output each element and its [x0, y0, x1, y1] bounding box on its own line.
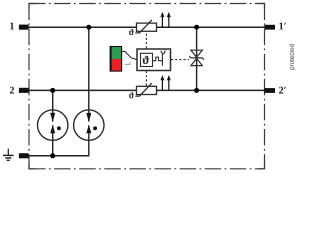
- node junction line1/GDT F2: [86, 25, 91, 30]
- node junction line2/TVS: [194, 88, 199, 93]
- varistor RV2 (thermally monitored, line 2): [135, 83, 156, 96]
- label terminal 2': [279, 87, 286, 94]
- GDT F2 spark gap (gas discharge tube): [74, 110, 104, 140]
- wire GDT F2 branch (line 1 to ground, crossing line 2): [88, 27, 90, 156]
- dashed link monitor to RV2: [145, 71, 147, 86]
- varistor RV1 (thermally monitored, line 1): [135, 20, 156, 33]
- terminal 1': [265, 25, 276, 30]
- node junction ground/GDT F1: [50, 153, 55, 158]
- wire GDT F1 branch (line 2 to ground): [52, 90, 54, 155]
- enclosure dash-dot border top: [29, 3, 265, 5]
- wire line 2: [29, 89, 265, 91]
- wire line 1: [29, 26, 265, 28]
- label protected (rotated): [289, 44, 295, 69]
- thermal monitor unit U1: [137, 49, 171, 71]
- terminal 2: [19, 88, 29, 93]
- label theta RV1: [129, 29, 134, 35]
- label terminal 1: [10, 23, 14, 30]
- enclosure dash-dot border bottom: [29, 168, 265, 170]
- ground symbol: [3, 149, 14, 161]
- terminal 2': [265, 88, 276, 93]
- wire TVS branch (line 1 to line 2): [196, 27, 198, 90]
- enclosure dash-dot border left: [28, 4, 30, 169]
- terminal ground: [19, 153, 29, 158]
- wire ground bus: [29, 155, 90, 157]
- GDT F1 spark gap (gas discharge tube): [38, 110, 68, 140]
- gray LED contact mark: [125, 62, 130, 65]
- label terminal 2: [10, 87, 14, 94]
- dashed link RV1 to monitor: [145, 34, 147, 49]
- dashed link monitor to TVS: [171, 59, 189, 61]
- enclosure dash-dot border right: [264, 4, 266, 169]
- label theta RV2: [129, 92, 134, 98]
- node junction line2/GDT F1: [50, 88, 55, 93]
- node junction line1/TVS: [194, 25, 199, 30]
- terminal 1: [19, 25, 29, 30]
- surge arrows at RV1: [160, 12, 170, 27]
- TVS bidirectional suppressor diode: [189, 50, 204, 65]
- border corner ticks: [29, 4, 265, 169]
- status indicator LED (green/red): [111, 46, 122, 72]
- label terminal 1': [279, 23, 285, 30]
- surge arrows at RV2: [160, 75, 170, 90]
- link LED to monitor: [122, 51, 137, 59]
